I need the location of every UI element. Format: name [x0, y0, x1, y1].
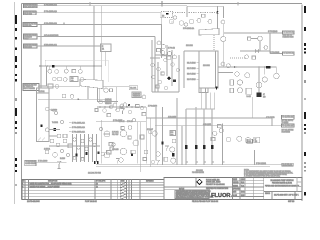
svg-text:SHT 020: SHT 020 — [288, 201, 294, 203]
svg-text:DESCRIPTION: DESCRIPTION — [48, 181, 58, 183]
instrument BG-9 — [161, 72, 164, 75]
instrument PI-162 — [55, 70, 59, 74]
wire — [49, 129, 60, 131]
wire BF9 — [152, 91, 179, 93]
svg-text:1"-PG-57: 1"-PG-57 — [147, 129, 153, 131]
equipment title K-001 — [88, 172, 102, 175]
svg-text:12-PID-020.DGN: 12-PID-020.DGN — [27, 201, 40, 203]
svg-text:TO 12-PID-024: TO 12-PID-024 — [282, 116, 293, 118]
wire W5 waste gas line — [37, 44, 101, 47]
instrument PI-123 — [221, 20, 225, 24]
svg-text:205: 205 — [255, 141, 258, 143]
instrument FI-178 — [116, 108, 120, 112]
svg-text:REFERENCE: REFERENCE — [146, 181, 154, 183]
instrument TI-163 — [64, 69, 68, 73]
svg-text:1"-FO-55: 1"-FO-55 — [119, 121, 125, 123]
wire W18 dashed signal run — [45, 61, 108, 82]
instrument TI-110 — [169, 19, 173, 23]
nozzle labels N1-N4 — [187, 63, 199, 82]
instrument box XY-225 — [109, 143, 113, 146]
svg-text:WASTE GAS: WASTE GAS — [24, 46, 32, 49]
svg-text:PROJECT NO 12-4456-001: PROJECT NO 12-4456-001 — [206, 184, 225, 186]
svg-text:169: 169 — [71, 80, 74, 82]
instrument TI-232 — [60, 120, 63, 123]
svg-text:2"-DC-12061: 2"-DC-12061 — [256, 163, 266, 165]
wire W1 fuel gas header — [37, 3, 187, 6]
node vent connector small — [247, 139, 253, 143]
wire BF4 — [166, 45, 168, 76]
instrument FI-143 — [235, 72, 239, 76]
node OUT-3 off-page connector — [282, 115, 295, 124]
svg-text:PROCESS HEATER 12-H-001: PROCESS HEATER 12-H-001 — [272, 182, 292, 185]
wire W2 pilot gas line — [36, 10, 161, 13]
svg-text:J.DOE: J.DOE — [241, 179, 245, 181]
instrument TI-202 — [226, 137, 230, 141]
svg-text:12-A-01: 12-A-01 — [130, 87, 136, 90]
wire W25 bottom header to limits — [255, 150, 282, 165]
node OUT-5 off-page connector — [282, 163, 294, 166]
valve BV-2 dark — [173, 79, 176, 82]
instrument PI-142 — [226, 64, 230, 68]
svg-text:PILOT GAS: PILOT GAS — [24, 13, 32, 16]
title block — [164, 178, 302, 200]
svg-text:ISLAMABAD PUMP STATION: ISLAMABAD PUMP STATION — [271, 179, 295, 182]
instrument PI-177 — [99, 100, 103, 104]
instrument BG-6 — [171, 63, 175, 67]
valve SDV-181 (solid) — [53, 128, 56, 131]
igniter cluster — [44, 139, 100, 160]
instrument PI-224 — [151, 160, 155, 164]
instrument PI-165 — [78, 70, 82, 74]
svg-text:R.M.: R.M. — [241, 182, 245, 184]
svg-text:PROCESS HEATER: PROCESS HEATER — [192, 171, 204, 174]
svg-text:12-P-101B: 12-P-101B — [112, 149, 119, 151]
wire W9 — [222, 24, 224, 67]
funnel drain F1 — [121, 109, 125, 115]
svg-text:1"-FO-56: 1"-FO-56 — [127, 121, 133, 123]
disclaimer box — [175, 189, 214, 200]
wire BF6 — [178, 55, 180, 92]
instrument BG-4 — [158, 80, 162, 84]
instrument PI-131 — [258, 36, 263, 41]
instrument TI-211 — [109, 105, 113, 109]
instrument TI-191 — [120, 148, 127, 155]
skid edge instruments row — [97, 151, 168, 162]
instrument PI-121 — [184, 23, 187, 26]
instrument TI-174 — [70, 95, 74, 99]
svg-text:VENDOR: VENDOR — [133, 96, 141, 98]
svg-text:DWG NO: DWG NO — [265, 193, 271, 195]
node IN-2 off-page connector box — [24, 11, 38, 16]
instrument LG-149 — [246, 88, 252, 98]
pump P-101 — [104, 131, 110, 137]
wire BF1 — [151, 40, 153, 92]
instrument PG-145 square — [230, 80, 234, 86]
svg-text:1"-PG-12052-A1A: 1"-PG-12052-A1A — [72, 126, 86, 129]
border frame — [15, 1, 303, 204]
svg-text:N4 3"-150#: N4 3"-150# — [187, 79, 196, 81]
burner front piping forest left of vessel — [150, 40, 180, 92]
top dashed instrument panel box BMS — [161, 12, 173, 18]
instrument box UA-189 — [68, 144, 72, 148]
svg-text:FLUOR: FLUOR — [211, 193, 231, 199]
wire W14 dashed impulse — [230, 55, 256, 60]
svg-text:2"-FG-12034-A1A: 2"-FG-12034-A1A — [44, 3, 58, 6]
svg-text:SUPPLY HEADER: SUPPLY HEADER — [24, 87, 36, 90]
svg-text:VENDOR: VENDOR — [105, 103, 112, 105]
wire W17 burner main gas line — [39, 65, 102, 67]
manifold instrument circles — [73, 138, 76, 141]
instrument BI-188 — [63, 139, 67, 143]
svg-text:2"-FG-12042-A1A: 2"-FG-12042-A1A — [183, 27, 195, 30]
tank level instruments — [38, 107, 64, 140]
instrument cluster burner front — [155, 22, 177, 59]
svg-text:FLARE KO DRUM: FLARE KO DRUM — [283, 35, 294, 38]
revision table — [22, 180, 164, 200]
valve SDV-160 (solid) — [52, 65, 55, 67]
instrument BG-2 — [157, 67, 161, 71]
node IN-4 off-page connector box — [24, 34, 38, 40]
instrument PI-220 — [99, 127, 102, 130]
svg-text:1.5"-AS-12037-B1B: 1.5"-AS-12037-B1B — [44, 34, 59, 37]
notes block — [244, 169, 293, 177]
node IN-3 off-page connector box — [23, 23, 37, 28]
svg-text:TI-12011: TI-12011 — [52, 122, 58, 124]
vessel 12-D-001 heater firebox — [199, 51, 218, 88]
burner isolation valve row (solid) — [162, 142, 214, 157]
registration dashes left edge — [15, 15, 17, 186]
analyzer AT-150 (solid box) — [257, 93, 266, 99]
instrument PI-146 — [237, 80, 242, 85]
instrument TI-122 — [197, 19, 201, 23]
instrument PI-192 — [112, 143, 115, 146]
svg-text:BMS: BMS — [162, 16, 164, 18]
svg-text:FUEL GAS SUPPLY: FUEL GAS SUPPLY — [24, 6, 38, 9]
instrument BI-184 — [50, 139, 54, 143]
instrument PIC-124 — [221, 36, 226, 41]
svg-text:V-12: V-12 — [248, 141, 251, 143]
company name lines — [206, 178, 225, 185]
wire W23 second product line — [155, 118, 272, 126]
wire W8 top center header — [187, 6, 224, 28]
instrument BI-240 — [60, 149, 63, 152]
instrument FI-193 — [152, 131, 157, 136]
node DRAIN connector box — [25, 160, 37, 165]
instrument BI-187 — [53, 153, 58, 158]
svg-text:194: 194 — [171, 134, 174, 136]
svg-text:CLOSED DRAIN: CLOSED DRAIN — [25, 162, 36, 165]
svg-text:6"-PV-12040: 6"-PV-12040 — [268, 31, 277, 33]
equipment title H-001 — [192, 170, 204, 174]
instrument LI-230 — [45, 107, 49, 111]
FLUOR diamond logo — [196, 179, 203, 185]
svg-text:ISSUED FOR CONSTRUCTION — INCO: ISSUED FOR CONSTRUCTION — INCORPORATED V… — [30, 183, 73, 186]
line number labels mid — [148, 105, 211, 126]
node OUT-2 off-page connector — [270, 52, 294, 55]
instrument BI-241 — [66, 153, 69, 156]
svg-text:2"-DC-12060: 2"-DC-12060 — [38, 161, 47, 163]
svg-text:12-T-01: 12-T-01 — [39, 91, 45, 93]
svg-text:1"-PG-51: 1"-PG-51 — [161, 55, 168, 57]
instrument BG-7 — [176, 68, 180, 72]
line labels stack — [69, 121, 86, 133]
pump P-104 — [119, 158, 123, 162]
svg-text:12-H-001: 12-H-001 — [203, 65, 210, 67]
instrument LI-180 — [45, 128, 49, 132]
svg-text:FROM USERS: FROM USERS — [282, 131, 291, 133]
instrument box HS-183 — [63, 134, 67, 138]
wire W21 drain header — [36, 161, 67, 163]
wire jl — [49, 66, 51, 69]
wire W7 signal from BMS — [162, 13, 218, 25]
wire W13 main overhead line — [218, 66, 276, 68]
valve XV-140 (solid gate) — [266, 66, 271, 68]
wire W20 pilot manifold lines — [96, 102, 146, 122]
instrument XV-164 — [72, 70, 76, 73]
wire W11 — [240, 39, 270, 52]
node OUT-1 off-page connector — [283, 31, 295, 39]
controller box LY-205 — [254, 137, 260, 142]
wire — [49, 135, 57, 137]
svg-text:STEAM: STEAM — [24, 37, 29, 40]
svg-text:TO USERS: TO USERS — [282, 122, 289, 124]
instrument BG-8 — [164, 86, 168, 90]
instrument BG-3 — [151, 75, 155, 79]
instrument FY-167 — [58, 77, 62, 80]
svg-text:3"-WG-12038-A1A: 3"-WG-12038-A1A — [44, 44, 58, 47]
svg-text:PIPING AND INSTRUMENTATION DIA: PIPING AND INSTRUMENTATION DIAGRAM — [265, 184, 300, 187]
pump P-103 — [104, 152, 110, 158]
node IN-6 off-page connector box — [23, 84, 39, 91]
instrument TI-144 — [245, 73, 250, 78]
tank 12-T-001 fuel oil day tank — [37, 88, 50, 142]
wire W6 fuel oil line — [39, 66, 47, 86]
valve dark marks — [75, 154, 77, 157]
svg-text:CHECKED: CHECKED — [233, 182, 239, 184]
vessel skirt — [199, 88, 208, 93]
signature cells left col — [233, 178, 264, 197]
instrument TI-196 — [171, 158, 176, 163]
instrument BI-186 — [45, 150, 49, 154]
instrument PSE-130 square — [248, 37, 251, 40]
instrument cluster left of manifold — [99, 100, 127, 114]
wire W12 vessel left feed — [184, 51, 199, 88]
instrument cluster right-bottom — [211, 125, 260, 144]
wire W3 combustion air line — [37, 22, 162, 42]
instrument TI-221 — [128, 126, 132, 130]
silencer box A-1 — [103, 86, 141, 110]
valve V-23 — [256, 46, 268, 53]
instrument box TY-126 — [202, 14, 206, 17]
svg-text:COMB. AIR: COMB. AIR — [24, 24, 32, 27]
valve HV-21 (solid) — [216, 11, 218, 14]
svg-text:4"-P-12070: 4"-P-12070 — [266, 117, 275, 119]
instrument PI-175 — [113, 103, 117, 107]
footer microtext — [27, 201, 294, 203]
burner valve manifold vlines — [73, 134, 97, 162]
svg-text:3"-PC-12041: 3"-PC-12041 — [270, 52, 279, 54]
instrument BG-10 — [156, 85, 159, 88]
svg-text:1"-PG-12056: 1"-PG-12056 — [148, 105, 157, 107]
instrument LIC-204 — [245, 138, 251, 144]
svg-text:1: 1 — [23, 184, 24, 186]
drawing title — [264, 178, 302, 200]
svg-text:12-K-001 FD FAN: 12-K-001 FD FAN — [88, 172, 102, 175]
instrument PI-222 — [144, 150, 148, 154]
svg-text:NONE: NONE — [241, 195, 244, 197]
instrument TI-168 — [63, 78, 67, 82]
svg-text:BY CHK APPR: BY CHK APPR — [96, 180, 106, 183]
instrument BI-185 — [56, 143, 60, 147]
svg-text:BI-1205: BI-1205 — [60, 158, 65, 160]
svg-text:1"-PG-52: 1"-PG-52 — [168, 48, 175, 50]
svg-text:ISSUED FOR DESIGN — HAZOP REVI: ISSUED FOR DESIGN — HAZOP REVIEW — [30, 186, 60, 189]
valve BV-1 dark diamond — [167, 76, 171, 80]
instrument TI-141 — [221, 62, 225, 66]
svg-text:1"-PG-12035-A1A: 1"-PG-12035-A1A — [44, 10, 58, 13]
svg-text:12-BX-01: 12-BX-01 — [44, 149, 50, 151]
instrument PI-195 — [170, 147, 175, 152]
instrument BE-1 — [171, 21, 173, 23]
wire W19 fan discharge — [38, 86, 110, 101]
wire W16 — [253, 67, 280, 118]
svg-text:4"-CA-12036-A1A: 4"-CA-12036-A1A — [44, 22, 58, 25]
tank bottom hatch — [38, 138, 41, 141]
pilot train items — [95, 99, 146, 121]
instrument PI-190 — [133, 140, 139, 146]
svg-text:NOTICE: NOTICE — [179, 189, 185, 191]
wire BF3 — [161, 42, 163, 58]
instrument FI-101 box at line end — [101, 44, 112, 66]
instrument FE-173 — [62, 94, 66, 98]
svg-text:10-92: 10-92 — [241, 192, 245, 194]
wire — [49, 145, 100, 147]
svg-text:1"-PG-12053-A1A: 1"-PG-12053-A1A — [72, 130, 86, 133]
funnel drain F2 — [57, 161, 61, 168]
wire W12b combustion air duct drop — [41, 6, 233, 88]
instrument TI-200 — [213, 131, 217, 135]
funnel drain F3 — [156, 160, 160, 165]
wire — [49, 109, 55, 112]
svg-text:1: 1 — [296, 195, 297, 197]
wire W22 bottom product line to limits — [146, 117, 275, 119]
instrument box HS-223 — [143, 158, 147, 161]
svg-text:FUEL PUMP: FUEL PUMP — [112, 134, 119, 136]
instrument PI-182 — [57, 134, 61, 138]
wire W15 drop to analyzer — [256, 67, 262, 93]
instrument TI-125 — [208, 20, 212, 24]
wire W10 transfer line to flare header — [224, 31, 283, 53]
svg-text:150: 150 — [263, 96, 266, 98]
instrument PI-172 — [55, 84, 59, 88]
wire — [251, 139, 254, 141]
controller box FIC-194 — [170, 131, 176, 136]
svg-text:LG-12: LG-12 — [247, 96, 251, 98]
instrument PSV-203 — [237, 136, 242, 141]
extra pump area instruments — [99, 121, 154, 164]
instrument TI-213 — [128, 110, 132, 114]
svg-text:0: 0 — [23, 187, 24, 189]
burner line feet jogs — [186, 161, 225, 163]
pump row cluster — [104, 127, 176, 164]
instrument BG-5 — [164, 58, 168, 62]
hatch marks date column — [120, 182, 126, 199]
tank internal valve (solid) — [41, 125, 43, 127]
instrument TI-179 — [123, 103, 127, 107]
svg-text:DESIGN: DESIGN — [233, 185, 238, 187]
instrument BG-1 — [151, 63, 155, 67]
svg-text:TO 12-PID-021: TO 12-PID-021 — [283, 32, 294, 34]
instrument TI-120 — [173, 16, 176, 19]
controller box FIC-169 — [70, 77, 78, 82]
node IN-1 off-page connector box — [24, 4, 38, 9]
wire BF8 — [150, 57, 160, 59]
wire BF2 — [157, 62, 159, 92]
valve VP-1 — [120, 106, 123, 108]
blower E-101 (air preheater) — [186, 29, 219, 52]
node OUT-4 off-page connector — [272, 124, 294, 133]
wire BF5 — [171, 50, 173, 86]
instrument PG-147 square — [230, 88, 234, 92]
blower 12-K-001 (FD fan) — [38, 79, 103, 88]
svg-text:1"-PG-12051-A1A: 1"-PG-12051-A1A — [72, 121, 86, 124]
svg-text:TO 12-PID-025: TO 12-PID-025 — [282, 126, 293, 128]
registration dashes right edge — [304, 6, 306, 196]
instrument TI-111 — [179, 21, 183, 25]
manifold bottom valves (solid) — [94, 161, 99, 164]
svg-text:N2 2"-150#: N2 2"-150# — [187, 68, 196, 70]
pump P-102 — [120, 130, 127, 137]
wire W24 bottom headers — [96, 165, 270, 167]
instrument PI-210 — [103, 109, 107, 113]
arrow down at vessel outlet (bold) — [215, 87, 217, 90]
svg-text:N1 2"-150#: N1 2"-150# — [187, 63, 196, 65]
tank outlet fittings — [45, 128, 67, 138]
instrument PI-148 — [237, 88, 242, 93]
instrument PI-170 — [80, 77, 84, 81]
instrument PI-161 — [48, 69, 52, 73]
instrument PI-166 — [52, 77, 56, 81]
instrument PI-201 — [219, 128, 223, 132]
svg-text:FILE 12-PID-020 PLOT 10-26-92: FILE 12-PID-020 PLOT 10-26-92 — [192, 201, 218, 203]
instrument TI-176 — [120, 104, 124, 108]
instrument row under gas line — [48, 66, 84, 88]
instrument box HY-212 — [107, 114, 111, 117]
svg-text:TO 12-PID-022: TO 12-PID-022 — [283, 53, 294, 55]
svg-text:CERTIFIED FOR CONSTRUCTION: CERTIFIED FOR CONSTRUCTION — [206, 188, 229, 190]
boxes — [211, 138, 215, 141]
wire W4 atomizing steam line — [37, 34, 155, 62]
svg-text:12-E-101: 12-E-101 — [186, 45, 193, 47]
instrument PI-112 — [189, 19, 193, 23]
svg-text:N3 3"-150#: N3 3"-150# — [187, 74, 196, 76]
small boxes — [131, 150, 135, 154]
wire BF7 — [154, 62, 156, 92]
instrument box XA-171 — [48, 84, 53, 88]
svg-text:TO 12-PID-026: TO 12-PID-026 — [282, 164, 292, 166]
instrument LT-231 — [54, 111, 57, 114]
svg-text:PLOT 10-26-92: PLOT 10-26-92 — [85, 201, 97, 203]
node IN-5 off-page connector box — [24, 44, 38, 49]
long vlines middle — [101, 93, 222, 173]
